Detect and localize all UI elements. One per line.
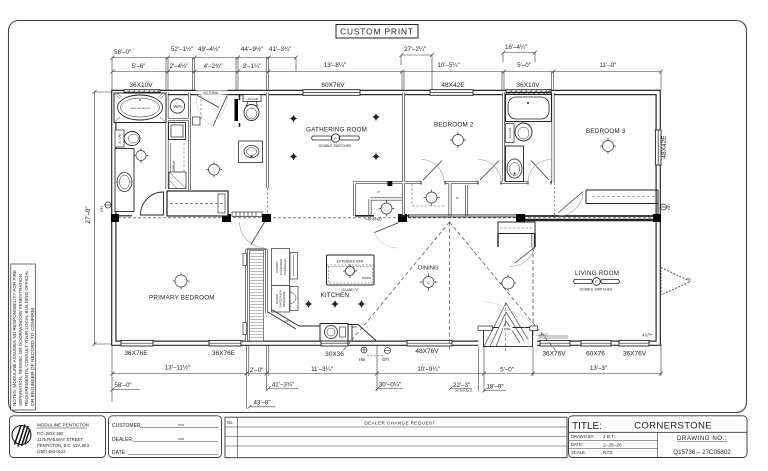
window 48X42E right wall [655, 130, 661, 165]
svg-text:36X76E: 36X76E [124, 350, 148, 357]
bath door [531, 161, 549, 181]
frosted door swing [375, 233, 399, 249]
svg-text:SGN: SGN [178, 423, 184, 427]
window labels bottom [124, 348, 646, 358]
W/H [170, 99, 184, 113]
hall niche box [193, 117, 201, 125]
svg-text:GFI: GFI [667, 204, 671, 210]
dim 27-2 line [400, 53, 435, 57]
svg-text:52′–1½″: 52′–1½″ [171, 46, 194, 53]
svg-text:2′–4½″: 2′–4½″ [170, 63, 190, 70]
window 36X76E bottom 1 [121, 340, 153, 346]
svg-text:SEPARATION, SEISMIC OR DOOR/WI: SEPARATION, SEISMIC OR DOOR/WINDOW FENES… [18, 274, 23, 406]
svg-text:WARDROBE: WARDROBE [282, 291, 286, 307]
primary closet on marriage line [167, 191, 228, 216]
upper unit south wall [408, 215, 516, 217]
row F ticks [111, 387, 487, 409]
wardrobe wall column [243, 249, 267, 341]
svg-text:60X76V: 60X76V [321, 82, 345, 89]
svg-text:13′–11½″: 13′–11½″ [165, 365, 191, 372]
svg-text:5′–6″: 5′–6″ [132, 63, 146, 70]
svg-text:CORNERSTONE: CORNERSTONE [634, 421, 712, 432]
hall bath pocket door [235, 99, 239, 121]
svg-text:PENTICTON, B.C. V2A 6K3: PENTICTON, B.C. V2A 6K3 [37, 443, 90, 448]
svg-text:DRAWN BY:: DRAWN BY: [571, 434, 594, 439]
windows in walls (band + mid line) [121, 90, 661, 346]
marriage posts [111, 214, 661, 222]
primary door wedge [141, 192, 164, 215]
bed3 door [558, 192, 583, 214]
left vertical dim line 27-0 [94, 92, 96, 344]
svg-text:No.: No. [227, 420, 234, 425]
svg-text:44′–9½″: 44′–9½″ [241, 46, 264, 53]
svg-text:DOUBLE SWITCHES: DOUBLE SWITCHES [580, 288, 614, 292]
living room light [500, 275, 517, 292]
gathering fan [312, 134, 360, 142]
hall bath toilet [244, 102, 259, 121]
svg-text:LIVING ROOM: LIVING ROOM [575, 270, 619, 277]
ensuite vanity sink [115, 149, 134, 212]
ensuite light [134, 148, 149, 163]
svg-text:58′–0″: 58′–0″ [114, 49, 132, 56]
svg-text:3′–1¼″: 3′–1¼″ [243, 63, 263, 70]
dim row A ticks [111, 56, 299, 60]
svg-text:10′–5¼″: 10′–5¼″ [437, 62, 460, 69]
svg-text:DEALER CHANGE REQUEST: DEALER CHANGE REQUEST [364, 421, 435, 426]
svg-text:HB: HB [359, 357, 365, 362]
extension lines bottom [112, 344, 661, 409]
svg-text:DW: DW [352, 325, 357, 329]
GFI right wall [660, 204, 672, 210]
title box [569, 416, 748, 458]
svg-text:41′–3¾″: 41′–3¾″ [272, 382, 295, 389]
svg-text:PRIMARY BEDROOM: PRIMARY BEDROOM [149, 295, 215, 302]
dim texts row B [132, 62, 617, 70]
svg-text:EL CAB: EL CAB [118, 133, 122, 143]
svg-text:11′–0″: 11′–0″ [600, 62, 617, 69]
customer box [109, 416, 222, 458]
svg-text:KITCHEN: KITCHEN [321, 292, 350, 299]
svg-text:58′–0″: 58′–0″ [115, 382, 133, 389]
living top wall [525, 215, 653, 217]
svg-text:DEALER:: DEALER: [112, 437, 133, 443]
svg-text:⊣4¾″: ⊣4¾″ [537, 333, 548, 338]
HB + GFI [359, 347, 391, 363]
bed3 opening dashed [554, 183, 556, 216]
svg-text:DATE:: DATE: [112, 450, 126, 456]
bath tub [506, 95, 552, 122]
svg-text:SGN: SGN [178, 437, 184, 441]
svg-text:Q15736 – 27C05802: Q15736 – 27C05802 [673, 449, 731, 456]
dim row A line [112, 57, 296, 59]
svg-text:36X76V: 36X76V [542, 351, 566, 358]
sparkles gathering [290, 113, 381, 161]
svg-text:2X6: 2X6 [686, 277, 691, 281]
svg-text:SHELF: SHELF [172, 161, 176, 172]
svg-text:16′–4¼″: 16′–4¼″ [505, 44, 528, 51]
svg-text:48X76V: 48X76V [415, 348, 439, 355]
svg-text:W/H: W/H [173, 104, 181, 109]
window 36X76V living 2 [619, 340, 649, 346]
victoria entry door [196, 91, 228, 126]
custom print box [336, 25, 418, 39]
svg-text:DOUBLE SWITCHES: DOUBLE SWITCHES [319, 144, 353, 148]
svg-text:30X36: 30X36 [325, 351, 344, 358]
svg-text:SCALE:: SCALE: [571, 450, 586, 455]
svg-text:(250) 493-0122: (250) 493-0122 [37, 449, 66, 454]
svg-text:5′–0″: 5′–0″ [517, 62, 531, 69]
svg-text:LIN CAB: LIN CAB [246, 97, 258, 101]
svg-text:13′–3″: 13′–3″ [590, 365, 608, 372]
vault X dashed [342, 222, 557, 352]
svg-text:CUSTOMER:: CUSTOMER: [112, 423, 142, 429]
dim texts bottom [115, 365, 608, 407]
marriage rail band [232, 212, 262, 217]
svg-text:13′–8¼″: 13′–8¼″ [324, 62, 347, 69]
svg-text:27′–2¼″: 27′–2¼″ [404, 46, 427, 53]
entry recess gap [479, 340, 538, 347]
dim texts row A [114, 44, 528, 56]
hall light [206, 162, 222, 178]
island [327, 255, 375, 285]
logo box [10, 416, 106, 458]
living room west wall dashed [532, 247, 534, 339]
laundry tub [169, 123, 186, 140]
svg-text:OASIS 6032 JACUZZI: OASIS 6032 JACUZZI [130, 107, 150, 110]
small 4-3/4 dims at bottom wall [537, 333, 654, 338]
window 60X76 living [581, 340, 611, 346]
svg-text:20′ DOUBLE: 20′ DOUBLE [455, 389, 472, 393]
svg-text:BEDROOM 2: BEDROOM 2 [434, 122, 474, 129]
victoria coat closet dashed [200, 95, 202, 119]
dim row B ticks [111, 70, 664, 74]
bed3 desk [586, 190, 658, 214]
svg-text:J.B.T.: J.B.T. [603, 434, 615, 440]
dealer change request box [225, 417, 567, 458]
svg-text:DATE:: DATE: [571, 442, 583, 447]
svg-text:1175 RAILWAY STREET: 1175 RAILWAY STREET [37, 437, 83, 442]
wardrobe door arc [240, 222, 265, 248]
row F underline segs [112, 389, 506, 407]
svg-text:10′–9¼″: 10′–9¼″ [417, 366, 440, 373]
shelf column [169, 143, 186, 189]
svg-text:CUSTOM PRINT: CUSTOM PRINT [340, 27, 414, 37]
entry closet [498, 222, 535, 247]
kitchen counter [268, 310, 376, 341]
svg-text:11′–3¼″: 11′–3¼″ [311, 366, 334, 373]
svg-text:NOTES: MODULINE ASSUMES NO RES: NOTES: MODULINE ASSUMES NO RESPONSIBILIT… [12, 270, 17, 406]
svg-text:LB: LB [285, 319, 289, 323]
svg-text:FROSTED: FROSTED [366, 218, 383, 222]
svg-text:41′–3¾″: 41′–3¾″ [269, 46, 292, 53]
svg-text:3 RISE: 3 RISE [502, 327, 511, 331]
svg-text:5′–0″: 5′–0″ [500, 367, 514, 374]
raised labels [272, 249, 299, 313]
LIN CAB [243, 95, 261, 102]
svg-text:GFI: GFI [100, 206, 104, 212]
bed3 desk dashed [592, 196, 658, 198]
ensuite EL CAB + toilet [115, 130, 140, 147]
svg-text:NTS: NTS [603, 450, 613, 456]
bath EL CAB + toilet [506, 123, 533, 143]
window 30X36 kitchen [321, 340, 348, 346]
svg-text:REQUIREMENTS, CONSULT YOUR LOC: REQUIREMENTS, CONSULT YOUR LOCAL BUILDIN… [24, 269, 29, 406]
svg-text:EXTENDED BAR: EXTENDED BAR [337, 260, 364, 264]
svg-text:VICTORIA: VICTORIA [203, 91, 219, 95]
sheet border [9, 21, 747, 413]
svg-text:SPACESAVER: SPACESAVER [279, 290, 283, 308]
dim row E line [112, 373, 661, 375]
victoria gap [196, 89, 228, 95]
svg-text:60X76: 60X76 [586, 351, 605, 358]
window 36X76E bottom 2 [209, 340, 241, 346]
bed2 closet door [423, 161, 442, 181]
svg-text:4′–2¾″: 4′–2¾″ [204, 63, 224, 70]
hall bath left wall [239, 95, 241, 127]
svg-text:36X10V: 36X10V [129, 82, 153, 89]
GFI left wall [100, 202, 112, 212]
svg-text:36X10V: 36X10V [516, 82, 540, 89]
svg-text:DINING: DINING [418, 266, 439, 272]
hall light [424, 190, 440, 206]
walkin closet dashed rod [412, 184, 446, 206]
window 48X76V dining [407, 340, 452, 346]
pantry south stubs [355, 215, 409, 217]
gathering west dashed opening [267, 188, 269, 214]
svg-text:BEDROOM 3: BEDROOM 3 [586, 128, 626, 135]
ensuite tub [114, 93, 166, 123]
svg-text:OVERHEAD: OVERHEAD [283, 258, 287, 276]
svg-text:EL CAB: EL CAB [508, 128, 512, 139]
window 60X76V [303, 90, 360, 96]
svg-text:MODULINE PENTICTON: MODULINE PENTICTON [37, 423, 89, 428]
svg-text:30′–0¼″: 30′–0¼″ [379, 382, 402, 389]
window labels top [129, 82, 540, 89]
svg-text:DRAWING NO.:: DRAWING NO.: [677, 435, 727, 442]
svg-text:GATHERING ROOM: GATHERING ROOM [306, 127, 367, 134]
svg-text:DWRS: DWRS [362, 276, 371, 280]
entry recess + steps [478, 326, 538, 347]
dim row B line [112, 71, 661, 73]
dim 16-4 line [502, 51, 538, 55]
svg-text:TITLE:: TITLE: [572, 421, 602, 432]
svg-text:49′–4½″: 49′–4½″ [198, 46, 221, 53]
svg-text:36X76E: 36X76E [212, 350, 236, 357]
window 48X42E [430, 90, 473, 96]
hall bath vanity sink [239, 141, 263, 163]
svg-text:48X42E: 48X42E [661, 135, 668, 159]
egress triangle right wall [661, 268, 691, 296]
window 36X76V living 1 [540, 340, 570, 346]
range/sink under window [320, 324, 348, 342]
svg-text:43′–8″: 43′–8″ [253, 400, 271, 407]
svg-text:2–25–26: 2–25–26 [603, 442, 622, 448]
svg-text:27′–0″: 27′–0″ [85, 206, 92, 224]
window 36X10V top left [124, 90, 160, 96]
svg-text:48X42E: 48X42E [441, 82, 465, 89]
svg-text:2′–0″: 2′–0″ [250, 367, 264, 374]
svg-text:36X76V: 36X76V [623, 351, 647, 358]
extension lines top [112, 53, 661, 91]
bath vanity sink [506, 146, 524, 182]
svg-text:GFI: GFI [382, 357, 389, 362]
svg-text:OR ENGINEER OF RECORD TO CONFI: OR ENGINEER OF RECORD TO CONFIRM [30, 308, 35, 406]
svg-text:RAISED: RAISED [275, 294, 279, 304]
svg-text:C: C [427, 280, 430, 285]
bed2 entry door [480, 161, 499, 181]
svg-text:P.O. BOX 190: P.O. BOX 190 [37, 431, 64, 436]
svg-text:4¾″⊢: 4¾″⊢ [642, 333, 653, 338]
window 36X10V top right [506, 90, 551, 96]
kitchen sparkles [305, 300, 366, 308]
svg-text:18′–9″: 18′–9″ [486, 384, 504, 391]
door jambs hall [421, 181, 551, 185]
